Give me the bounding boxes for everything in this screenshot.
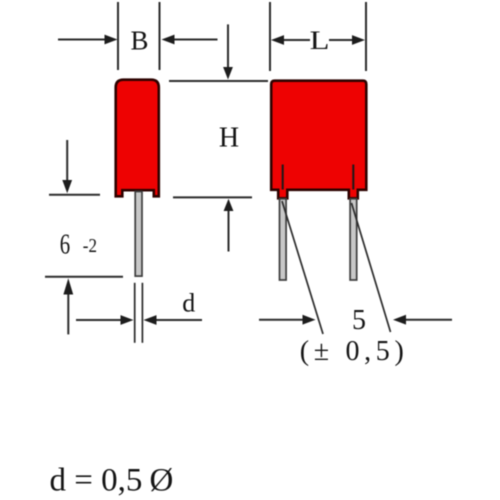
svg-text:H: H [219,122,239,153]
svg-text:B: B [130,25,148,55]
svg-text:6: 6 [60,228,70,260]
svg-text:Ø: Ø [150,463,174,499]
svg-text:5: 5 [352,305,366,336]
svg-text:(± 0,5): (± 0,5) [300,336,404,367]
svg-text:L: L [310,27,330,55]
svg-text:d = 0,5: d = 0,5 [50,463,143,499]
svg-text:-2: -2 [83,235,97,258]
svg-text:d: d [182,289,195,318]
